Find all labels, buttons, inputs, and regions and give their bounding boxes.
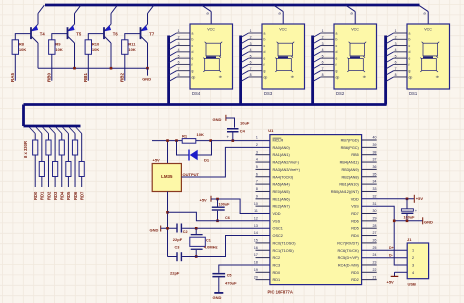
transistor T5 xyxy=(67,24,75,43)
bus vertical left of DS1 xyxy=(384,36,387,105)
svg-text:C5: C5 xyxy=(227,274,232,278)
bus entry VCC DS4 xyxy=(202,5,211,11)
junction T6 collector xyxy=(110,67,113,70)
svg-text:8: 8 xyxy=(256,187,258,191)
bus entry pin 7 DS2 xyxy=(313,71,321,76)
bus left vertical xyxy=(22,105,25,127)
capacitor C4 10uF xyxy=(227,128,239,133)
svg-text:8: 8 xyxy=(395,73,397,77)
junction C7 bottom xyxy=(406,220,409,223)
svg-text:20: 20 xyxy=(254,275,258,279)
pin 23 stub U1 xyxy=(362,264,377,266)
svg-text:2: 2 xyxy=(250,35,252,39)
pin 27 stub U1 xyxy=(362,235,377,237)
svg-text:16: 16 xyxy=(254,246,258,250)
bus entry pin 8 DS4 xyxy=(169,77,177,82)
junction ground branch LM35 wire xyxy=(166,211,169,214)
svg-text:19: 19 xyxy=(254,268,258,272)
pin wire 6 DS4 xyxy=(177,63,190,65)
pin wire 2 DS1 xyxy=(394,38,407,40)
wire base T4 xyxy=(15,34,31,40)
svg-text:RD0: RD0 xyxy=(273,271,281,275)
svg-text:1: 1 xyxy=(412,249,414,253)
wire collector common rail xyxy=(38,67,148,69)
svg-text:a: a xyxy=(192,31,194,35)
svg-text:c: c xyxy=(264,44,266,48)
svg-text:T4: T4 xyxy=(40,31,46,36)
svg-text:4: 4 xyxy=(412,271,414,275)
svg-text:13: 13 xyxy=(254,224,258,228)
svg-text:RD4: RD4 xyxy=(60,191,65,200)
svg-text:5: 5 xyxy=(395,54,397,58)
bus entry pin 4 DS4 xyxy=(169,52,177,57)
junction T7 collector xyxy=(146,67,149,70)
svg-text:g: g xyxy=(264,69,266,73)
svg-text:OSC2: OSC2 xyxy=(273,234,283,238)
junction LM35 ground wire xyxy=(166,227,169,230)
pin wire 8 DS1 xyxy=(394,76,407,78)
bus entry pin 3 DS3 xyxy=(241,46,249,51)
ground bar C5 xyxy=(214,292,223,294)
svg-text:2: 2 xyxy=(412,256,414,260)
7-segment glyph DS3 xyxy=(275,42,294,72)
pin 26 stub U1 xyxy=(362,242,377,244)
transistor T4 xyxy=(30,24,38,43)
svg-text:dp: dp xyxy=(409,75,413,79)
svg-text:DS1: DS1 xyxy=(409,91,418,96)
svg-text:R9: R9 xyxy=(55,42,61,47)
svg-text:+5V: +5V xyxy=(200,197,208,202)
svg-text:9: 9 xyxy=(349,12,354,14)
svg-text:C6: C6 xyxy=(225,216,230,220)
svg-text:9: 9 xyxy=(205,12,210,14)
svg-text:GND: GND xyxy=(213,295,222,300)
svg-text:7: 7 xyxy=(250,67,252,71)
bus entry pin 2 DS2 xyxy=(313,39,321,44)
bus entry pin 1 DS1 xyxy=(386,33,394,38)
bus entry pin 8 DS3 xyxy=(241,77,249,82)
connector J1 USB xyxy=(407,243,428,279)
pin wire 5 DS2 xyxy=(321,57,334,59)
svg-text:32: 32 xyxy=(373,194,377,198)
pin 33 stub U1 xyxy=(362,190,377,192)
resistor R9 10K xyxy=(49,40,55,55)
svg-text:37: 37 xyxy=(373,158,377,162)
svg-text:VDD: VDD xyxy=(351,197,359,201)
svg-text:VSS: VSS xyxy=(273,219,281,223)
svg-text:RD2: RD2 xyxy=(351,278,359,282)
bus entry pin 1 DS2 xyxy=(313,33,321,38)
svg-text:2: 2 xyxy=(322,35,324,39)
svg-text:RC3: RC3 xyxy=(273,263,281,267)
svg-text:10K: 10K xyxy=(92,47,99,52)
junction ground vertical xyxy=(393,220,396,223)
svg-text:24: 24 xyxy=(373,253,377,257)
svg-text:RA3(AN3/Vref+): RA3(AN3/Vref+) xyxy=(273,168,301,172)
svg-text:f: f xyxy=(409,63,410,67)
svg-text:25: 25 xyxy=(373,246,377,250)
svg-text:GND: GND xyxy=(213,117,222,122)
svg-text:e: e xyxy=(336,57,338,61)
svg-text:PIC 16F877A: PIC 16F877A xyxy=(268,290,293,295)
wire below resistor RD7 xyxy=(81,177,83,188)
wire above resistor RD0 xyxy=(34,134,36,141)
wire ground to C3 xyxy=(168,256,177,258)
wire base T6 xyxy=(88,34,104,40)
bus entry pin 5 DS1 xyxy=(386,58,394,63)
junction C4 xyxy=(232,139,235,142)
svg-text:RB4(AN11): RB4(AN11) xyxy=(340,161,360,165)
svg-text:RB3(AN9): RB3(AN9) xyxy=(341,168,359,172)
svg-text:100uF: 100uF xyxy=(219,202,231,206)
pin wire 5 DS1 xyxy=(394,57,407,59)
bus entry VCC DS2 xyxy=(346,5,355,11)
pin 7 stub U1 xyxy=(256,183,270,185)
bus entry pin 7 DS3 xyxy=(241,71,249,76)
svg-text:34: 34 xyxy=(373,180,377,184)
svg-text:5: 5 xyxy=(178,54,180,58)
svg-text:a: a xyxy=(409,31,411,35)
svg-text:b: b xyxy=(409,38,411,42)
svg-text:36: 36 xyxy=(373,165,377,169)
svg-text:3: 3 xyxy=(322,42,324,46)
bus entry pin 5 DS2 xyxy=(313,58,321,63)
power bracket +5V C6 xyxy=(210,196,212,202)
svg-text:2: 2 xyxy=(256,143,258,147)
svg-text:6: 6 xyxy=(250,61,252,65)
wire D- RC5 to J1 xyxy=(362,257,408,259)
bus entry pin 4 DS1 xyxy=(386,52,394,57)
wire C3 to OSC2 xyxy=(182,236,270,257)
svg-text:GND: GND xyxy=(150,228,159,233)
svg-text:4: 4 xyxy=(322,48,324,52)
svg-text:2: 2 xyxy=(395,35,397,39)
bus resistor feed horizontal xyxy=(24,125,81,128)
pin wire 6 DS2 xyxy=(321,63,334,65)
bus top horizontal xyxy=(45,4,420,7)
pin 4 stub U1 xyxy=(256,161,270,163)
svg-text:1: 1 xyxy=(395,29,397,33)
bus mid horizontal under displays xyxy=(24,103,387,106)
wire VCC DS1 xyxy=(427,12,429,24)
svg-text:T7: T7 xyxy=(149,31,155,36)
pin 36 stub U1 xyxy=(362,168,377,170)
svg-text:5: 5 xyxy=(322,54,324,58)
svg-text:d: d xyxy=(336,50,338,54)
svg-text:40: 40 xyxy=(373,136,377,140)
svg-text:RA4(T0CKI): RA4(T0CKI) xyxy=(273,175,294,179)
svg-text:d: d xyxy=(192,50,194,54)
wire C4 to rail xyxy=(232,133,234,141)
svg-text:RE0(AN5): RE0(AN5) xyxy=(273,190,291,194)
svg-text:g: g xyxy=(336,69,338,73)
svg-text:VCC: VCC xyxy=(351,28,359,32)
bus entry pin 4 DS2 xyxy=(313,52,321,57)
svg-text:14: 14 xyxy=(254,231,258,235)
svg-text:b: b xyxy=(192,38,194,42)
wire below R11 xyxy=(124,54,126,80)
svg-text:3: 3 xyxy=(395,42,397,46)
svg-text:10: 10 xyxy=(254,202,258,206)
bus entry pin 6 DS3 xyxy=(241,64,249,69)
svg-text:RA1(AN1): RA1(AN1) xyxy=(273,153,291,157)
svg-text:RC5(D+/VP): RC5(D+/VP) xyxy=(338,256,360,260)
ground symbol transistor rail xyxy=(147,68,149,75)
bus entry resistor 2 xyxy=(36,127,42,134)
svg-text:R11: R11 xyxy=(128,42,136,47)
svg-text:8: 8 xyxy=(250,73,252,77)
svg-text:+5V: +5V xyxy=(153,158,161,163)
svg-text:e: e xyxy=(192,57,194,61)
pin 5 stub U1 xyxy=(256,168,270,170)
display DS3 xyxy=(262,24,305,89)
bus entry resistor 8 xyxy=(76,127,82,134)
svg-text:8: 8 xyxy=(178,73,180,77)
pin wire 1 DS3 xyxy=(249,32,262,34)
svg-text:RD0: RD0 xyxy=(33,191,38,200)
svg-text:RC4(D-/VM): RC4(D-/VM) xyxy=(338,263,360,267)
svg-text:6: 6 xyxy=(256,172,258,176)
bus entry pin 5 DS3 xyxy=(241,58,249,63)
svg-text:1: 1 xyxy=(250,29,252,33)
7-segment glyph DS1 xyxy=(420,42,439,72)
bus entry pin 6 DS4 xyxy=(169,64,177,69)
junction crystal bottom xyxy=(195,255,198,258)
bus entry resistor 4 xyxy=(49,127,55,134)
wire diode loop xyxy=(177,141,189,155)
wire VCC DS4 xyxy=(210,12,212,24)
svg-text:100uF: 100uF xyxy=(404,215,416,219)
wire below resistor RD5 xyxy=(67,177,69,188)
svg-text:RD3: RD3 xyxy=(351,271,359,275)
bus entry pin 6 DS2 xyxy=(313,64,321,69)
svg-text:RD4: RD4 xyxy=(351,234,359,238)
svg-text:dp: dp xyxy=(336,75,340,79)
pin wire 1 DS4 xyxy=(177,32,190,34)
junction D1 left xyxy=(175,139,178,142)
sensor LM35 xyxy=(152,164,181,192)
svg-text:23: 23 xyxy=(373,261,377,265)
svg-text:e: e xyxy=(409,57,411,61)
wire VCC DS2 xyxy=(354,12,356,24)
svg-text:3: 3 xyxy=(256,150,258,154)
svg-text:DS4: DS4 xyxy=(192,91,201,96)
svg-text:RD5: RD5 xyxy=(351,227,359,231)
svg-text:VCC: VCC xyxy=(279,28,287,32)
svg-text:35: 35 xyxy=(373,172,377,176)
svg-text:RD6: RD6 xyxy=(351,219,359,223)
svg-text:RB6(PGC): RB6(PGC) xyxy=(341,146,360,150)
svg-text:12: 12 xyxy=(254,216,258,220)
wire ground branch to VSS pin12 xyxy=(168,212,270,221)
svg-text:T5: T5 xyxy=(76,31,82,36)
pin wire 4 DS3 xyxy=(249,51,262,53)
resistor 330R RD5 xyxy=(66,162,71,177)
pin wire 8 DS3 xyxy=(249,76,262,78)
pin wire 4 DS2 xyxy=(321,51,334,53)
bus entry pin 3 DS4 xyxy=(169,46,177,51)
svg-text:6: 6 xyxy=(322,61,324,65)
svg-text:RC6(TX/CK): RC6(TX/CK) xyxy=(337,249,359,253)
wire above resistor RD3 xyxy=(54,134,56,162)
svg-text:LM35: LM35 xyxy=(161,174,173,179)
bus entry resistor 1 xyxy=(29,127,35,134)
svg-text:4: 4 xyxy=(256,158,258,162)
svg-text:26: 26 xyxy=(373,239,377,243)
svg-text:22pF: 22pF xyxy=(173,237,183,242)
wire below resistor RD0 xyxy=(34,155,36,187)
svg-text:dp: dp xyxy=(264,75,268,79)
svg-text:C1: C1 xyxy=(206,238,211,242)
svg-text:4: 4 xyxy=(395,48,397,52)
pin wire 6 DS1 xyxy=(394,63,407,65)
svg-text:9: 9 xyxy=(256,194,258,198)
svg-text:C2: C2 xyxy=(183,230,188,234)
pin 30 stub U1 xyxy=(362,213,377,215)
svg-text:2: 2 xyxy=(178,35,180,39)
wire GND to C4 xyxy=(226,118,235,128)
bus entry pin 1 DS3 xyxy=(241,33,249,38)
svg-text:dp: dp xyxy=(219,75,223,79)
svg-text:22: 22 xyxy=(373,268,377,272)
svg-text:f: f xyxy=(192,63,193,67)
svg-text:31: 31 xyxy=(373,202,377,206)
svg-text:d: d xyxy=(409,50,411,54)
svg-text:RC7(RX/DT): RC7(RX/DT) xyxy=(337,241,359,245)
svg-text:9: 9 xyxy=(277,12,282,14)
pin wire 7 DS3 xyxy=(249,70,262,72)
svg-text:dp: dp xyxy=(363,75,367,79)
wire above resistor RD7 xyxy=(81,134,83,162)
bus entry pin 2 DS1 xyxy=(386,39,394,44)
svg-text:1: 1 xyxy=(322,29,324,33)
wire above resistor RD1 xyxy=(41,134,43,162)
wire below R10 xyxy=(87,54,89,80)
svg-text:RE2(AN7): RE2(AN7) xyxy=(273,205,291,209)
svg-text:RD2: RD2 xyxy=(46,191,51,200)
svg-text:470uF: 470uF xyxy=(225,281,237,286)
wire collector T5 xyxy=(74,43,76,68)
svg-text:VDD: VDD xyxy=(273,212,281,216)
wire VCC DS3 xyxy=(282,12,284,24)
svg-text:18: 18 xyxy=(254,261,258,265)
svg-text:RB5: RB5 xyxy=(351,153,358,157)
svg-text:RD7: RD7 xyxy=(79,191,84,200)
svg-text:f: f xyxy=(264,63,265,67)
svg-text:C4: C4 xyxy=(240,129,246,134)
svg-text:RA2(AN2/Vref-): RA2(AN2/Vref-) xyxy=(273,161,300,165)
svg-text:VSS: VSS xyxy=(351,205,359,209)
svg-text:OSC1: OSC1 xyxy=(273,227,283,231)
bus entry to T7 xyxy=(148,5,154,13)
wire emitter T7 xyxy=(147,14,149,25)
7-segment glyph DS4 xyxy=(203,42,222,72)
svg-text:RB1: RB1 xyxy=(83,73,88,82)
wire above resistor RD5 xyxy=(67,134,69,162)
bus vertical left of DS3 xyxy=(239,36,242,105)
svg-text:RE1(AN6): RE1(AN6) xyxy=(273,197,291,201)
wire emitter T4 xyxy=(37,14,39,25)
pin 6 stub U1 xyxy=(256,176,270,178)
svg-text:dp: dp xyxy=(436,75,440,79)
svg-text:OUTPUT: OUTPUT xyxy=(183,172,200,177)
svg-text:8: 8 xyxy=(322,73,324,77)
wire below R8 xyxy=(14,54,16,80)
pin wire 2 DS3 xyxy=(249,38,262,40)
bus entry pin 8 DS2 xyxy=(313,77,321,82)
svg-text:+: + xyxy=(227,135,230,140)
wire below resistor RD2 xyxy=(47,155,49,187)
bus entry to T5 xyxy=(75,5,81,13)
bus entry pin 7 DS4 xyxy=(169,71,177,76)
junction crystal top xyxy=(195,227,198,230)
svg-text:RB1(AN10): RB1(AN10) xyxy=(339,183,359,187)
bus entry pin 2 DS4 xyxy=(169,39,177,44)
svg-text:RD3: RD3 xyxy=(53,191,58,200)
svg-text:5: 5 xyxy=(256,165,258,169)
svg-text:R8: R8 xyxy=(19,42,25,47)
junction C6 bottom xyxy=(216,220,219,223)
pin wire 2 DS2 xyxy=(321,38,334,40)
svg-text:27: 27 xyxy=(373,231,377,235)
pin 40 stub U1 xyxy=(362,139,377,141)
svg-text:39: 39 xyxy=(373,143,377,147)
svg-text:33: 33 xyxy=(373,187,377,191)
pin 38 stub U1 xyxy=(362,154,377,156)
7-segment glyph DS2 xyxy=(347,42,366,72)
capacitor C6 100uF xyxy=(212,199,225,221)
svg-text:a: a xyxy=(336,31,338,35)
pin wire 4 DS4 xyxy=(177,51,190,53)
pin wire 6 DS3 xyxy=(249,63,262,65)
pin 29 stub U1 xyxy=(362,220,377,222)
svg-text:5: 5 xyxy=(250,54,252,58)
bus entry pin 2 DS3 xyxy=(241,39,249,44)
bus entry VCC DS3 xyxy=(274,5,283,11)
wire VSS pin31 ground xyxy=(362,206,408,265)
junction C6 top xyxy=(216,198,219,201)
svg-text:4: 4 xyxy=(178,48,180,52)
svg-text:9: 9 xyxy=(422,12,427,14)
svg-text:GND: GND xyxy=(142,77,151,82)
bus entry pin 3 DS2 xyxy=(313,46,321,51)
wire below resistor RD1 xyxy=(41,177,43,188)
ground bracket crystal xyxy=(160,226,162,232)
resistor 330R RD1 xyxy=(39,162,44,177)
svg-text:11: 11 xyxy=(254,209,258,213)
svg-text:+5V: +5V xyxy=(387,279,395,284)
svg-text:RD5: RD5 xyxy=(66,191,71,200)
svg-text:7: 7 xyxy=(322,67,324,71)
svg-text:b: b xyxy=(264,38,266,42)
svg-text:RB2(AN8): RB2(AN8) xyxy=(341,175,359,179)
wire GND to C2 xyxy=(161,227,177,229)
svg-text:7: 7 xyxy=(178,67,180,71)
svg-text:C3: C3 xyxy=(175,245,180,249)
bus entry to T4 xyxy=(38,5,44,13)
pin wire 3 DS4 xyxy=(177,45,190,47)
svg-text:10K: 10K xyxy=(128,47,135,52)
wire base T7 xyxy=(125,34,141,40)
wire D+ RC6 to J1 xyxy=(362,249,408,251)
pin wire 5 DS4 xyxy=(177,57,190,59)
wire below resistor RD4 xyxy=(61,155,63,187)
svg-text:DS2: DS2 xyxy=(336,91,345,96)
svg-text:b: b xyxy=(336,38,338,42)
wire RC3 to C5 xyxy=(219,265,270,273)
svg-text:10K: 10K xyxy=(55,47,62,52)
capacitor C3 22pF xyxy=(176,252,182,261)
